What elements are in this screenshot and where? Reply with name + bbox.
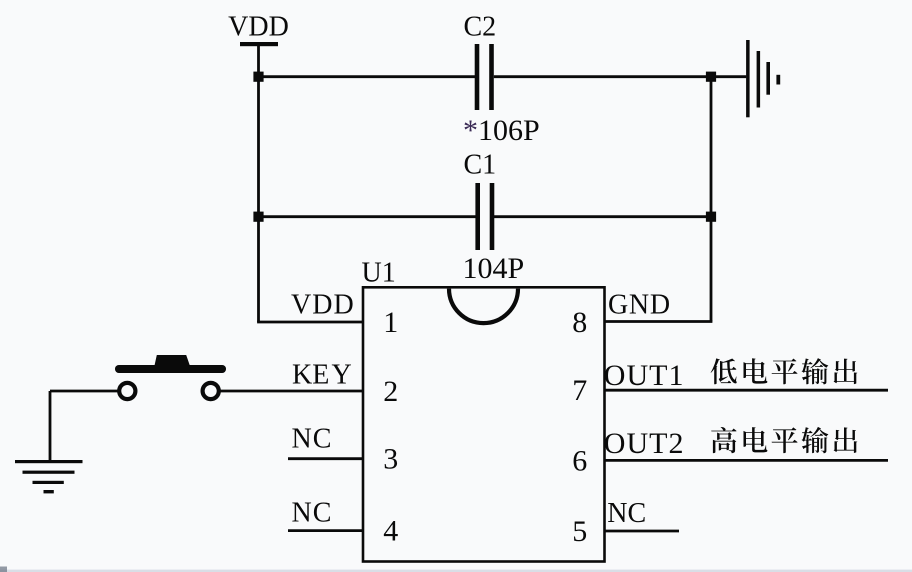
corner smudge — [0, 567, 7, 572]
wire mid rail left (VDD to C1) — [259, 215, 477, 218]
pin 5 wire (NC) — [605, 530, 680, 533]
IC U1 — [362, 257, 605, 561]
ground symbol (rotated, top right) — [746, 40, 780, 117]
svg-text:NC: NC — [292, 424, 333, 455]
label OUT1 Chinese: low level output — [711, 358, 858, 384]
pin 4 wire (NC) — [288, 529, 363, 532]
svg-text:1: 1 — [383, 306, 398, 339]
wire GND vertical rail — [710, 77, 713, 322]
svg-text:104P: 104P — [463, 252, 525, 285]
svg-text:OUT2: OUT2 — [604, 427, 685, 460]
svg-text:*106P: *106P — [463, 114, 540, 147]
capacitor C1 — [464, 150, 497, 251]
svg-text:U1: U1 — [362, 257, 396, 288]
svg-text:7: 7 — [572, 374, 587, 407]
svg-text:OUT1: OUT1 — [604, 359, 685, 392]
pin 2 wire (KEY) — [219, 390, 363, 393]
svg-text:5: 5 — [572, 515, 587, 548]
pushbutton switch S1 — [115, 355, 226, 399]
pin 6 wire (OUT2) — [605, 459, 889, 462]
pin 1 wire (VDD) — [257, 321, 363, 324]
svg-text:NC: NC — [607, 498, 646, 529]
power symbol VDD — [228, 11, 289, 46]
label OUT2 Chinese: high level output — [711, 427, 857, 453]
svg-text:VDD: VDD — [291, 289, 355, 320]
capacitor C2 — [464, 11, 497, 110]
wire VDD vertical rail — [257, 46, 260, 322]
svg-text:8: 8 — [572, 306, 587, 339]
wire ground drop — [49, 391, 52, 461]
wire stub to ground — [711, 75, 746, 78]
node junction top right — [706, 72, 716, 82]
node junction VDD/C1 — [253, 212, 263, 222]
wire top rail right (C2 to GND node) — [494, 75, 711, 78]
svg-text:3: 3 — [383, 443, 398, 476]
ground symbol (bottom left) — [15, 460, 83, 493]
node junction mid right — [706, 212, 716, 222]
svg-text:2: 2 — [383, 375, 398, 408]
svg-text:C2: C2 — [464, 11, 497, 42]
svg-text:GND: GND — [608, 290, 671, 321]
wire switch to ground — [50, 390, 120, 393]
pin 7 wire (OUT1) — [605, 389, 889, 392]
svg-text:KEY: KEY — [292, 360, 352, 391]
pin 8 wire (GND) — [605, 320, 713, 323]
bottom edge artifact line — [0, 570, 912, 572]
svg-text:4: 4 — [383, 515, 398, 548]
svg-text:C1: C1 — [464, 150, 497, 181]
svg-text:6: 6 — [572, 444, 587, 477]
wire mid rail right (C1 to GND rail) — [494, 215, 711, 218]
pin 3 wire (NC) — [288, 457, 363, 460]
wire top rail left (VDD to C2) — [259, 75, 476, 78]
svg-text:NC: NC — [292, 498, 333, 529]
svg-text:VDD: VDD — [228, 11, 289, 42]
node junction VDD/C2 — [253, 72, 263, 82]
